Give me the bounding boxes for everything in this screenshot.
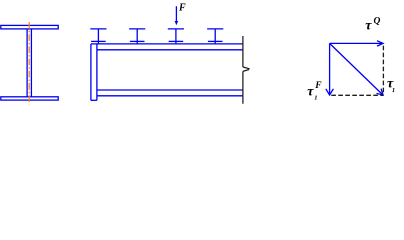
I-beam cross-section web right line [30,29,32,97]
cross-beam symbol 4 [207,29,223,44]
label tau-1 resultant [387,76,395,94]
svg-text:1: 1 [392,87,395,94]
beam end plate left line [90,44,92,100]
parallelogram bottom dashed side [331,94,383,96]
beam break line (zigzag) [243,36,250,104]
cross-beam symbol 3 [168,29,184,44]
I-beam cross-section bottom flange [1,97,58,100]
I-beam cross-section top flange [1,25,58,29]
cross-beam symbol 2 [129,29,145,44]
resultant stress vector tau-1 (diagonal) [330,43,383,95]
svg-text:F: F [314,81,322,91]
beam top flange outer line [91,43,243,45]
svg-text:τ: τ [307,84,314,99]
beam bottom flange outer line [97,95,243,97]
stress vector tau-Q (top, rightward) [330,41,383,46]
stress vector tau-F (left, downward) [326,43,334,95]
I-beam cross-section web left line [26,29,28,97]
svg-text:Q: Q [374,17,381,27]
beam end plate right line [96,44,98,100]
svg-text:F: F [178,3,186,14]
svg-text:1: 1 [314,94,317,101]
beam bottom flange inner line [97,89,243,91]
force F arrow [175,6,179,25]
vertical centerline of cross-section [28,22,30,104]
label tau with superscript Q [365,17,380,34]
parallelogram right dashed side [382,46,384,96]
beam end plate bottom cap [91,99,97,101]
cross-beam symbol 1 [90,29,106,44]
label tau-1 with superscript F [307,81,322,102]
beam top flange inner line [97,49,243,51]
svg-text:τ: τ [365,19,372,34]
